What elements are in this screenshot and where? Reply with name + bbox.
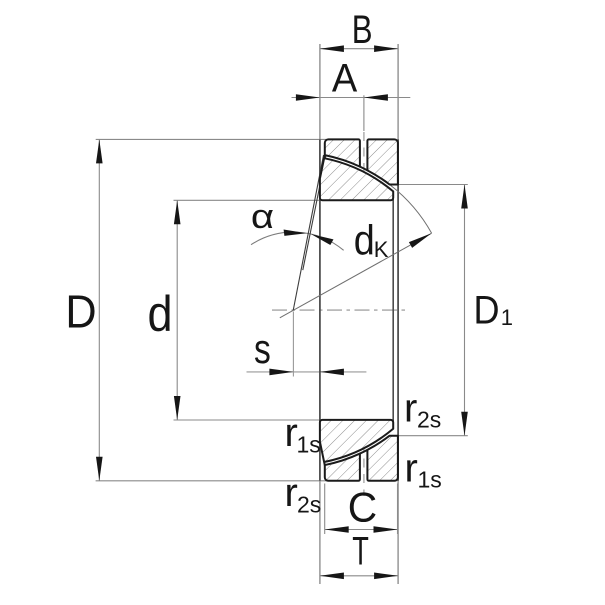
inner ring top section [320,155,393,200]
svg-text:α: α [251,197,274,235]
svg-text:1: 1 [501,305,513,330]
svg-text:2s: 2s [297,492,321,518]
svg-text:r: r [285,471,298,515]
svg-text:C: C [348,484,377,531]
svg-text:T: T [352,529,369,573]
svg-text:K: K [374,237,389,262]
extension line s (sphere centre plane) [292,312,294,377]
outer ring top-right section [367,139,398,184]
arrow C right [374,526,398,533]
svg-text:d: d [354,218,375,264]
outer ring top-left section [325,139,360,166]
inner ring bottom section [320,420,393,465]
extension line D top [96,138,326,140]
extension line A right (split center) [363,95,365,131]
dimension line C [325,529,398,531]
dimension line A [292,97,411,99]
extension line C right [397,484,399,535]
dimension line d [176,200,178,420]
dimension line B [320,48,398,50]
arrow D bottom [96,457,103,481]
outer ring bottom-left section [325,454,360,481]
arrow D top [96,139,103,163]
inner ring left face line / B-T extension left [319,44,321,584]
dimension line T [320,575,398,577]
arrow A right [364,94,388,101]
svg-text:A: A [332,57,357,101]
dK leader line through sphere centre [280,233,432,317]
alpha angle dimension arc [251,232,344,250]
extension line D bottom [96,480,326,482]
svg-text:s: s [254,327,271,373]
outer ring right face line / B-T extension right [397,44,399,584]
arrow d bottom [174,396,181,420]
arrow d top [174,200,181,224]
arrow T right [374,573,398,580]
svg-text:1s: 1s [297,432,321,458]
dimension line D [98,139,100,480]
center line of outer ring split (bottom) [363,443,365,496]
arrow s left [269,369,293,376]
arrow s right [320,369,344,376]
arrow A left [296,94,320,101]
svg-text:D: D [474,289,500,333]
extension line D1 top [398,184,467,186]
svg-text:D: D [65,287,96,337]
inner ring left face edge [319,139,321,480]
center line of outer ring split (top) [363,132,365,177]
sphere surface line across top split [360,167,368,171]
sphere surface line across bottom split [360,450,368,454]
extension line D1 bottom [398,435,467,437]
arrow D1 bottom [461,412,468,436]
svg-text:2s: 2s [417,407,441,433]
arrow B right [374,45,398,52]
dimension line s [247,371,367,373]
svg-text:B: B [352,7,373,52]
arrow dK [409,233,432,248]
svg-text:r: r [404,387,417,431]
arrow T left [320,573,344,580]
outer ring right face edge [397,139,399,480]
arrow C left [325,526,349,533]
svg-text:d: d [147,287,172,343]
arrow alpha right [311,234,333,245]
horizontal centre line (bearing axis) [272,309,406,311]
arrow D1 top [461,185,468,209]
arrow B left [320,45,344,52]
sphere silhouette arc dK [391,185,432,233]
arrow alpha left [284,230,307,236]
inner ring right face edge [392,191,394,428]
extension line d bottom [174,419,320,421]
outer ring bottom-right section [367,436,398,481]
extension line d top [174,199,320,201]
extension line C left [324,484,326,535]
svg-text:r: r [405,446,418,490]
alpha tilt reference line (double) [293,155,323,310]
dimension line D1 [464,185,466,436]
svg-text:1s: 1s [418,467,442,493]
